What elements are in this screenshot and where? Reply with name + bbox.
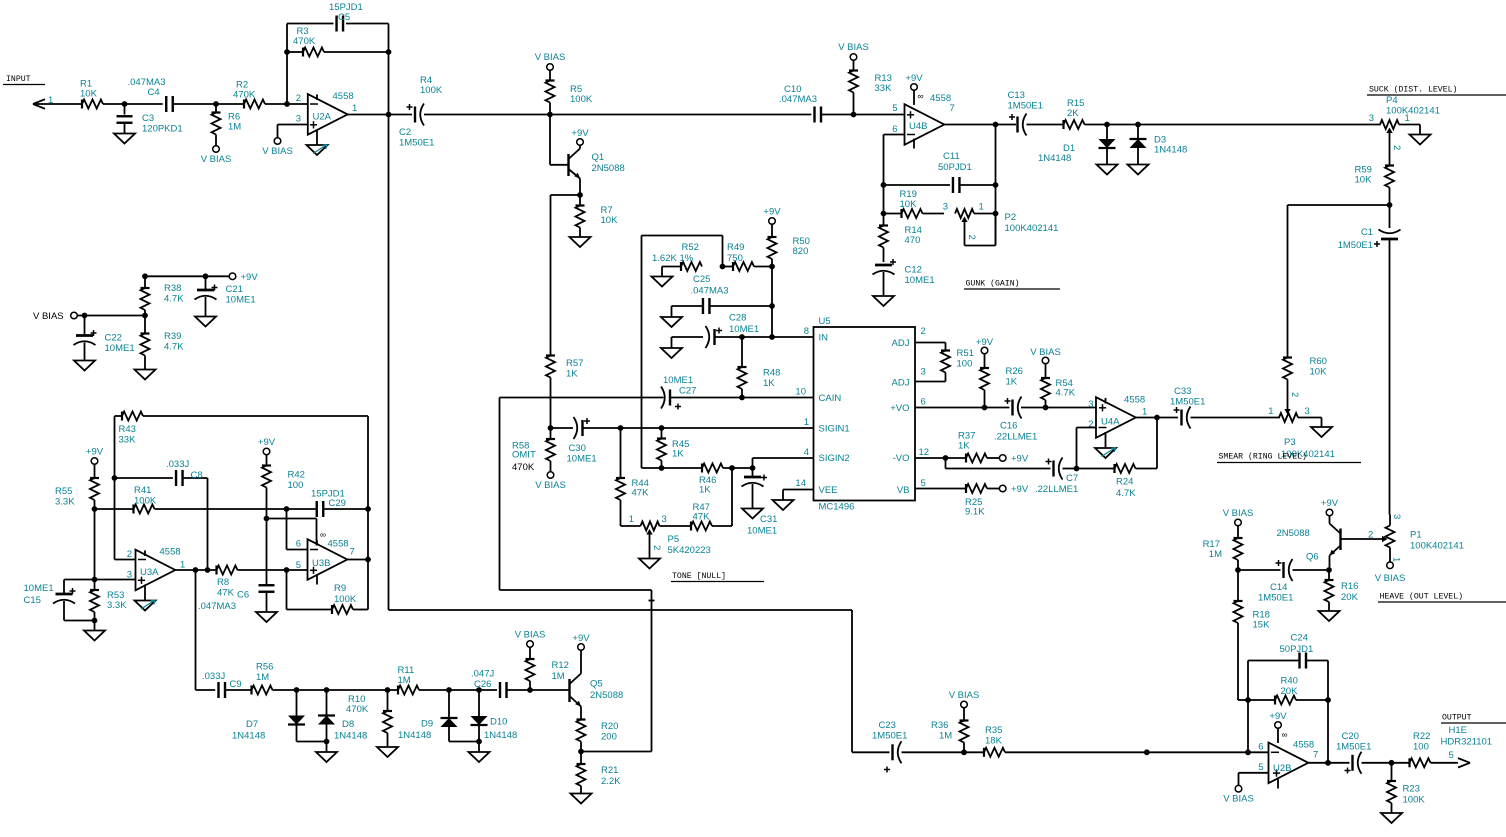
svg-text:+9V: +9V	[1269, 711, 1287, 722]
svg-text:R42: R42	[288, 470, 305, 481]
svg-text:1K: 1K	[1006, 377, 1018, 388]
transistor Q1 2N5088	[569, 145, 625, 194]
svg-text:SUCK (DIST. LEVEL): SUCK (DIST. LEVEL)	[1369, 85, 1457, 95]
svg-text:1M50E1: 1M50E1	[1008, 101, 1043, 112]
potentiometer P1 100K402141	[1341, 514, 1464, 562]
wire C5 line	[287, 23, 389, 25]
wire CAIN	[500, 397, 814, 399]
svg-text:100K: 100K	[134, 496, 157, 507]
ground (C28)	[661, 348, 682, 358]
svg-text:V BIAS: V BIAS	[535, 480, 566, 491]
svg-text:R35: R35	[985, 725, 1002, 736]
svg-text:1K: 1K	[958, 441, 970, 452]
junction	[92, 577, 98, 583]
junction Q6 emitter	[1326, 567, 1332, 573]
svg-text:100K402141: 100K402141	[1386, 106, 1440, 117]
resistor R44 47K	[616, 428, 649, 526]
svg-text:10ME1: 10ME1	[567, 454, 597, 465]
junction	[720, 264, 726, 270]
wire	[1136, 417, 1178, 419]
junction	[1325, 760, 1331, 766]
svg-text:33K: 33K	[119, 435, 137, 446]
resistor R50 820	[763, 207, 810, 307]
net label INPUT	[3, 75, 45, 85]
resistor R57 1K	[546, 356, 583, 429]
svg-text:R48: R48	[763, 368, 780, 379]
junction R6 node	[213, 101, 219, 107]
svg-text:470: 470	[905, 235, 921, 246]
svg-text:D7: D7	[246, 719, 258, 730]
svg-text:U2B: U2B	[1273, 763, 1291, 774]
wire feedback left vertical	[286, 24, 288, 105]
terminal V BIAS (source)	[33, 311, 77, 322]
svg-text:4558: 4558	[1293, 740, 1314, 751]
svg-text:C8: C8	[191, 470, 203, 481]
resistor R45 1K	[657, 428, 689, 468]
wire +VO	[915, 407, 1096, 409]
wire V BIAS rail	[77, 315, 145, 317]
diode D1 1N4148	[1038, 125, 1116, 165]
svg-text:1M: 1M	[256, 672, 269, 683]
wire	[103, 103, 163, 105]
wire	[1085, 124, 1381, 126]
wire	[265, 103, 308, 105]
svg-text:3.3K: 3.3K	[107, 600, 127, 611]
wire feedback to CAIN	[500, 590, 655, 752]
svg-text:100K: 100K	[334, 594, 357, 605]
ground (R21)	[571, 794, 592, 804]
svg-text:R55: R55	[55, 486, 72, 497]
svg-text:10K: 10K	[1355, 175, 1373, 186]
wire Q5 base	[530, 689, 570, 691]
svg-text:V BIAS: V BIAS	[515, 630, 546, 641]
junction	[982, 405, 988, 411]
terminal +9V (R37)	[999, 454, 1028, 465]
svg-text:H1E: H1E	[1449, 725, 1467, 736]
capacitor C6 .047MA3	[198, 585, 275, 612]
resistor R19 10K	[884, 189, 945, 218]
terminal +9V (bias)	[229, 272, 258, 283]
svg-text:R49: R49	[727, 242, 744, 253]
ground (C21)	[195, 317, 216, 327]
op-amp U3B 4558	[296, 530, 355, 585]
svg-text:R39: R39	[164, 331, 181, 342]
op-amp U4B 4558	[892, 90, 955, 148]
resistor R12 1M	[515, 630, 569, 691]
wire SMEAR link	[1288, 205, 1390, 358]
input terminal pin 1	[33, 95, 53, 109]
junction	[943, 455, 949, 461]
ground (D8)	[316, 742, 337, 763]
resistor R39 4.7K	[141, 316, 185, 370]
svg-text:3: 3	[1369, 113, 1374, 124]
svg-text:1: 1	[1268, 406, 1273, 417]
resistor R58 OMIT 470K	[512, 428, 555, 473]
output terminal pin 5	[1449, 750, 1471, 768]
svg-text:2N5088: 2N5088	[590, 690, 623, 701]
svg-text:5: 5	[296, 560, 301, 571]
svg-text:1: 1	[629, 514, 634, 525]
junction	[750, 465, 756, 471]
wire	[902, 751, 985, 753]
svg-text:7: 7	[950, 103, 955, 114]
svg-text:1: 1	[979, 202, 984, 213]
svg-text:R43: R43	[119, 424, 136, 435]
wire -VO	[915, 457, 966, 459]
wire U2A output	[348, 114, 412, 116]
capacitor C12 10ME1	[873, 259, 935, 296]
capacitor C13 1M50E1	[1008, 90, 1043, 136]
svg-text:+9V: +9V	[258, 437, 276, 448]
svg-text:C16: C16	[1000, 421, 1017, 432]
wire	[207, 478, 209, 570]
svg-text:100K: 100K	[570, 94, 593, 105]
junction	[193, 567, 199, 573]
svg-text:470K: 470K	[512, 462, 535, 473]
svg-text:820: 820	[793, 246, 809, 257]
svg-text:C5: C5	[338, 12, 350, 23]
svg-text:GUNK (GAIN): GUNK (GAIN)	[966, 279, 1020, 289]
ground (U2A)	[307, 145, 328, 156]
junction D3	[1135, 122, 1141, 128]
junction U2A pin2 node	[284, 101, 290, 107]
svg-text:1K: 1K	[672, 449, 684, 460]
resistor R60 10K	[1283, 356, 1327, 380]
svg-text:200: 200	[601, 732, 617, 743]
svg-text:.22LLME1: .22LLME1	[994, 432, 1037, 443]
wire SMEAR line	[1191, 417, 1281, 419]
junction	[365, 557, 371, 563]
svg-text:TONE [NULL]: TONE [NULL]	[672, 571, 726, 581]
diode D7 1N4148	[232, 690, 305, 742]
svg-text:C27: C27	[679, 386, 696, 397]
junction	[476, 739, 482, 745]
ground (P4)	[1410, 135, 1431, 145]
capacitor C27 10ME1	[661, 375, 696, 410]
junction	[769, 264, 775, 270]
svg-text:+9V: +9V	[976, 337, 994, 348]
svg-text:5: 5	[921, 478, 926, 489]
svg-text:10K: 10K	[601, 215, 619, 226]
junction (stub)	[1144, 749, 1150, 755]
svg-text:V BIAS: V BIAS	[1223, 794, 1254, 805]
svg-text:V BIAS: V BIAS	[535, 52, 566, 63]
junction R36	[961, 749, 967, 755]
svg-text:.047MA3: .047MA3	[198, 601, 236, 612]
svg-text:C12: C12	[905, 265, 922, 276]
wire	[821, 114, 905, 116]
svg-text:C3: C3	[142, 113, 154, 124]
resistor R51 100	[915, 343, 974, 382]
junction	[527, 687, 533, 693]
wire Q1 emitter to R57	[551, 195, 581, 356]
svg-text:3: 3	[1305, 406, 1310, 417]
resistor R6 1M	[212, 104, 242, 146]
svg-text:100K402141: 100K402141	[1005, 223, 1059, 234]
junction	[324, 687, 330, 693]
svg-text:+9V: +9V	[572, 633, 590, 644]
svg-text:.22LLME1: .22LLME1	[1035, 484, 1078, 495]
svg-text:6: 6	[296, 539, 301, 550]
svg-text:4.7K: 4.7K	[164, 342, 184, 353]
junction	[729, 465, 735, 471]
capacitor C26 .047J	[471, 669, 530, 699]
svg-text:+9V: +9V	[86, 447, 104, 458]
capacitor C3 120PKD1	[117, 104, 183, 135]
capacitor C21 10ME1	[195, 276, 256, 316]
svg-text:D10: D10	[490, 717, 507, 728]
resistor R14 470	[879, 225, 922, 262]
resistor R53 3.3K	[90, 580, 127, 621]
svg-text:∞: ∞	[1282, 730, 1288, 740]
resistor R22 100	[1410, 731, 1459, 767]
svg-text:1M50E1: 1M50E1	[1338, 240, 1373, 251]
svg-text:D8: D8	[342, 719, 354, 730]
svg-text:R22: R22	[1413, 731, 1430, 742]
junction R5 node	[547, 112, 553, 118]
svg-text:10ME1: 10ME1	[663, 375, 693, 386]
svg-text:V BIAS: V BIAS	[838, 42, 869, 53]
svg-text:U4A: U4A	[1101, 417, 1120, 428]
capacitor C8 .033J	[115, 459, 208, 486]
svg-text:6: 6	[1258, 742, 1263, 753]
capacitor C24 50PJD1	[1248, 633, 1328, 669]
resistor R37 1K	[958, 431, 999, 463]
svg-text:R51: R51	[957, 348, 974, 359]
svg-text:V BIAS: V BIAS	[1030, 347, 1061, 358]
op-amp U3A 4558	[127, 547, 186, 601]
ground (R53)	[84, 621, 105, 641]
capacitor C28 10ME1	[672, 313, 760, 349]
svg-text:4558: 4558	[328, 539, 349, 550]
svg-text:U4B: U4B	[909, 121, 927, 132]
capacitor C1 1M50E1	[1338, 205, 1401, 251]
terminal V BIAS (U2B)	[1223, 785, 1254, 804]
svg-text:1: 1	[180, 560, 185, 571]
svg-text:100: 100	[1413, 742, 1429, 753]
svg-text:R8: R8	[217, 577, 229, 588]
svg-text:4558: 4558	[930, 93, 951, 104]
svg-text:R9: R9	[334, 583, 346, 594]
resistor R52 1.62K 1%	[652, 242, 702, 277]
junction	[1235, 567, 1241, 573]
resistor R40 20K	[1248, 676, 1328, 705]
terminal +9V (R25)	[999, 484, 1028, 495]
svg-text:100K402141: 100K402141	[1410, 541, 1464, 552]
resistor R11 1M	[398, 665, 498, 695]
svg-text:5: 5	[1449, 750, 1454, 761]
svg-text:U3B: U3B	[312, 558, 330, 569]
svg-text:+9V: +9V	[1011, 454, 1029, 465]
svg-text:C21: C21	[226, 284, 243, 295]
svg-text:2: 2	[1391, 145, 1402, 150]
resistor R17 1M	[1203, 508, 1254, 570]
svg-text:HDR321101: HDR321101	[1441, 737, 1493, 748]
svg-text:1M50E1: 1M50E1	[1336, 742, 1371, 753]
svg-text:OUTPUT: OUTPUT	[1442, 714, 1472, 723]
svg-text:C26: C26	[474, 679, 491, 690]
wire	[771, 306, 773, 337]
svg-text:C28: C28	[729, 313, 746, 324]
svg-text:HEAVE (OUT LEVEL): HEAVE (OUT LEVEL)	[1380, 592, 1464, 602]
junction	[881, 211, 887, 217]
svg-text:+9V: +9V	[763, 207, 781, 218]
svg-text:100: 100	[957, 359, 973, 370]
junction Q1 emitter	[577, 192, 583, 198]
section label SMEAR (RING LEVEL)	[1217, 452, 1361, 463]
svg-text:1K: 1K	[699, 485, 711, 496]
junction U4A output	[1154, 415, 1160, 421]
svg-text:Q5: Q5	[590, 679, 603, 690]
resistor R55 3.3K	[55, 447, 104, 510]
resistor R36 1M	[931, 690, 979, 752]
svg-text:1M50E1: 1M50E1	[1258, 593, 1293, 604]
junction	[284, 49, 290, 55]
svg-text:2N5088: 2N5088	[592, 163, 625, 174]
terminal V BIAS (R58)	[535, 472, 566, 491]
svg-text:4558: 4558	[333, 91, 354, 102]
junction	[1074, 466, 1080, 472]
terminal V BIAS (P1)	[1375, 562, 1406, 584]
capacitor C29 15PJD1	[311, 489, 368, 518]
ground (R10)	[377, 747, 398, 757]
wire tone loop top	[642, 236, 723, 267]
svg-text:U3A: U3A	[140, 567, 159, 578]
svg-text:1M50E1: 1M50E1	[1170, 397, 1205, 408]
resistor R5 100K	[535, 52, 593, 115]
junction	[1245, 749, 1251, 755]
svg-text:C30: C30	[569, 443, 586, 454]
svg-text:R16: R16	[1341, 581, 1358, 592]
junction	[659, 425, 665, 431]
junction	[203, 273, 209, 279]
svg-text:1N4148: 1N4148	[1038, 153, 1071, 164]
svg-text:+9V: +9V	[905, 73, 923, 84]
junction	[1043, 405, 1049, 411]
terminal +9V (U4B)	[905, 73, 923, 101]
resistor R56 1M	[252, 662, 399, 695]
svg-text:5: 5	[1258, 762, 1263, 773]
terminal +9V (Q5)	[572, 633, 590, 650]
svg-text:2K: 2K	[1067, 108, 1079, 119]
wire	[94, 509, 96, 580]
svg-text:C14: C14	[1270, 582, 1287, 593]
svg-text:C6: C6	[237, 590, 249, 601]
svg-text:10K: 10K	[900, 199, 918, 210]
svg-text:R21: R21	[601, 765, 618, 776]
svg-text:47K: 47K	[693, 512, 711, 523]
section label TONE [NULL]	[671, 571, 764, 582]
svg-text:.047MA3: .047MA3	[779, 94, 817, 105]
resistor R38 4.7K	[141, 276, 185, 315]
svg-text:5: 5	[892, 103, 897, 114]
wire pin2 vertical	[115, 416, 136, 560]
junction	[294, 687, 300, 693]
svg-text:1M: 1M	[552, 671, 565, 682]
svg-text:IN: IN	[819, 333, 829, 344]
ground (C6)	[256, 612, 277, 622]
junction	[476, 687, 482, 693]
resistor R42 100	[258, 437, 305, 585]
resistor R8 47K	[217, 566, 308, 599]
svg-text:3: 3	[943, 202, 948, 213]
capacitor C30 10ME1	[567, 417, 597, 465]
svg-text:R41: R41	[134, 485, 151, 496]
capacitor C4 .047MA3	[128, 77, 173, 112]
svg-text:∞: ∞	[320, 530, 326, 540]
ground (D10)	[469, 742, 490, 763]
junction	[739, 334, 745, 340]
svg-text:P4: P4	[1386, 95, 1398, 106]
ground (P5)	[639, 559, 660, 569]
junction	[618, 425, 624, 431]
svg-text:1N4148: 1N4148	[398, 730, 431, 741]
svg-text:P1: P1	[1410, 530, 1422, 541]
junction	[446, 687, 452, 693]
svg-text:+9V: +9V	[1011, 484, 1029, 495]
svg-text:1M50E1: 1M50E1	[872, 731, 907, 742]
junction	[578, 749, 584, 755]
svg-text:4558: 4558	[160, 547, 181, 558]
potentiometer P3 100K402141	[1268, 380, 1335, 461]
svg-text:2: 2	[1289, 392, 1300, 397]
svg-text:7: 7	[350, 547, 355, 558]
svg-text:C9: C9	[230, 679, 242, 690]
diode D8 1N4148	[318, 690, 367, 742]
svg-text:47K: 47K	[632, 488, 650, 499]
wire SIGIN2	[753, 458, 814, 468]
svg-text:10ME1: 10ME1	[747, 526, 777, 537]
svg-text:4.7K: 4.7K	[164, 294, 184, 305]
op-amp U4A 4558	[1088, 395, 1147, 449]
ground (R52)	[652, 277, 673, 287]
svg-text:R57: R57	[566, 358, 583, 369]
junction	[769, 334, 775, 340]
junction R23	[1389, 760, 1395, 766]
op-amp U2A 4558	[296, 91, 358, 145]
resistor R3 470K	[287, 26, 389, 57]
capacitor C25 .047MA3	[672, 274, 773, 317]
svg-text:C2: C2	[399, 127, 411, 138]
svg-text:1N4148: 1N4148	[334, 731, 367, 742]
svg-text:V BIAS: V BIAS	[262, 146, 293, 157]
capacitor C22 10ME1	[74, 316, 135, 361]
svg-text:R12: R12	[552, 660, 569, 671]
svg-text:2: 2	[296, 93, 301, 104]
resistor R2 470K	[233, 80, 265, 109]
wire C7 line	[946, 458, 1115, 469]
svg-text:P2: P2	[1005, 212, 1017, 223]
svg-text:4: 4	[804, 447, 809, 458]
section label SUCK (DIST. LEVEL)	[1367, 85, 1506, 96]
svg-text:U2A: U2A	[313, 112, 332, 123]
wire U2B output	[1308, 762, 1349, 764]
svg-text:SIGIN1: SIGIN1	[819, 424, 850, 435]
ground (U4A)	[1095, 448, 1116, 459]
junction	[284, 567, 290, 573]
svg-text:R23: R23	[1403, 784, 1420, 795]
resistor R48 1K	[738, 337, 781, 398]
svg-text:VB: VB	[897, 485, 910, 496]
wire	[225, 689, 252, 691]
svg-text:3: 3	[1391, 514, 1402, 519]
svg-text:U5: U5	[819, 316, 831, 327]
junction	[1245, 697, 1251, 703]
capacitor C33 1M50E1	[1170, 386, 1205, 429]
diode D9 1N4148	[398, 690, 458, 742]
svg-text:3: 3	[921, 367, 926, 378]
junction	[993, 122, 999, 128]
